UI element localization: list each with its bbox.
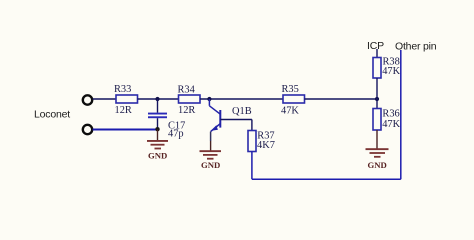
resistor R36 [373,109,401,131]
svg-text:R33: R33 [114,84,131,95]
wire terminal1 to R33 [93,98,116,100]
svg-text:GND: GND [368,160,387,170]
svg-text:GND: GND [201,160,220,170]
svg-text:R34: R34 [178,84,196,95]
wire R35 to divider junction [305,98,378,100]
resistor R38 [373,56,401,78]
capacitor C17 [148,113,185,140]
wire R33 to R34 [138,98,179,100]
wire R34 to R35 [200,98,283,100]
resistor R33 [114,84,138,116]
svg-text:Loconet: Loconet [34,109,70,121]
svg-text:Q1B: Q1B [232,106,252,117]
junction node C17 bottom [155,127,159,131]
svg-text:GND: GND [148,151,167,161]
wire junction to R36 [376,99,378,109]
wire C17 to bottom junction [157,118,159,129]
ground GND (Q1 emitter) [200,141,222,170]
junction node Q1 collector [207,97,211,101]
junction node divider [375,97,379,101]
wire base to R37 [251,120,253,131]
wire Other pin vertical [400,50,402,179]
svg-text:47K: 47K [382,66,400,77]
ground GND (divider) [366,148,389,170]
terminal top (Loconet pin 1) [83,95,92,104]
svg-text:47K: 47K [382,119,400,130]
wire R38 to junction [376,78,378,99]
resistor R34 [178,84,201,116]
wire terminal2 to junction [93,129,158,131]
transistor Q1B [209,99,252,141]
svg-text:47p: 47p [168,129,184,140]
svg-text:12R: 12R [178,105,195,116]
svg-text:12R: 12R [115,105,132,116]
svg-text:4K7: 4K7 [257,140,275,151]
svg-text:R35: R35 [282,84,299,95]
wire ICP to R38 [376,49,378,58]
wire R36 to GND [376,130,378,149]
resistor R37 [248,131,275,152]
terminal bottom (Loconet pin 2) [83,125,92,134]
junction node C17 top [155,97,159,101]
svg-text:Other pin: Other pin [395,41,437,53]
svg-text:47K: 47K [281,105,299,116]
wire junction down to C17 [157,99,159,113]
svg-text:ICP: ICP [367,40,384,52]
wire R37 down to bottom rail [251,152,253,180]
ground GND (C17) [147,130,168,161]
wire bottom rail [252,178,401,180]
resistor R35 [281,84,305,116]
